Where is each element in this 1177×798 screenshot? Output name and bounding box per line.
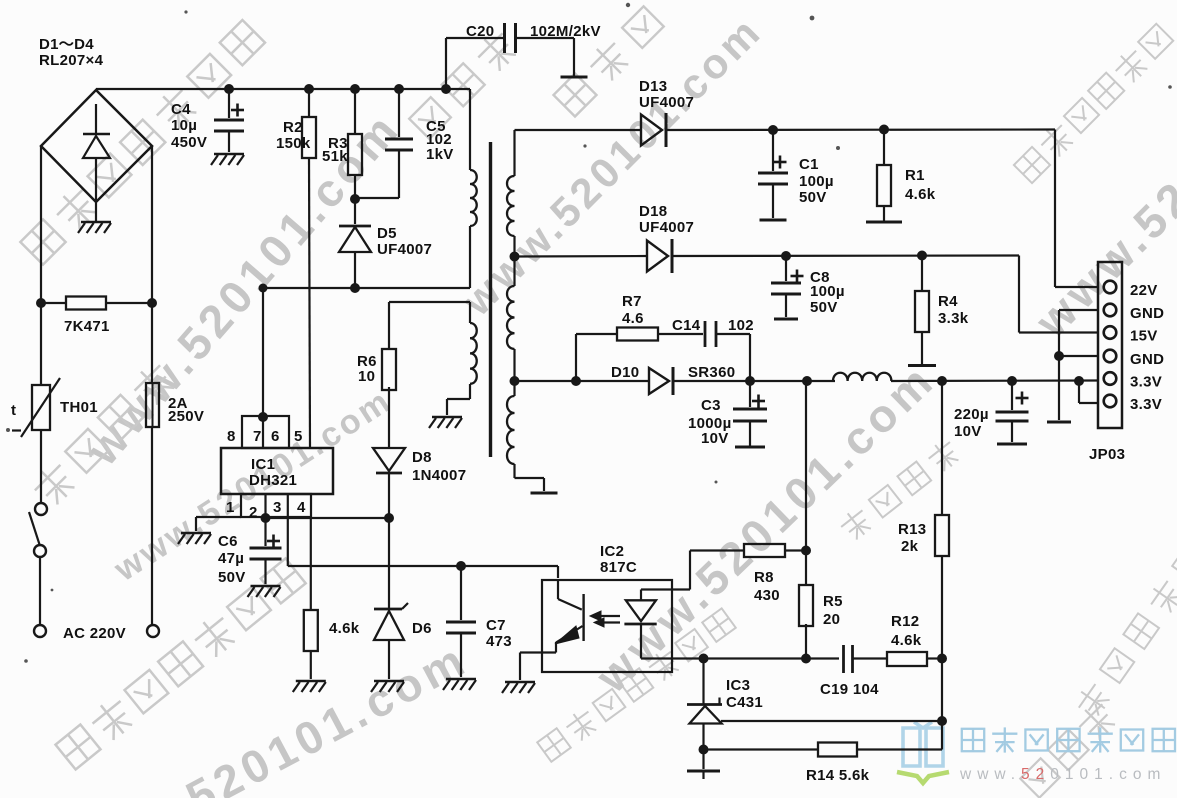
svg-text:D1～D4: D1～D4 [39, 36, 94, 53]
svg-text:3: 3 [273, 499, 282, 516]
svg-text:AC 220V: AC 220V [63, 625, 126, 642]
svg-text:100µ: 100µ [810, 283, 845, 300]
svg-text:IC2: IC2 [600, 543, 624, 560]
svg-text:R7: R7 [622, 293, 642, 310]
svg-text:50V: 50V [218, 569, 246, 586]
svg-text:R2: R2 [283, 119, 303, 136]
svg-text:10V: 10V [701, 430, 729, 447]
svg-text:4: 4 [297, 499, 306, 516]
svg-text:RL207×4: RL207×4 [39, 52, 104, 69]
svg-text:10V: 10V [954, 423, 982, 440]
svg-text:www.520101.com: www.520101.com [54, 632, 476, 798]
svg-text:UF4007: UF4007 [377, 241, 432, 258]
svg-text:D5: D5 [377, 225, 397, 242]
svg-text:R4: R4 [938, 293, 958, 310]
svg-text:102: 102 [728, 317, 754, 334]
svg-text:JP03: JP03 [1089, 446, 1125, 463]
svg-text:GND: GND [1130, 351, 1164, 368]
svg-text:D6: D6 [412, 620, 432, 637]
svg-text:20: 20 [823, 611, 840, 628]
svg-text:2: 2 [249, 504, 258, 521]
svg-text:D8: D8 [412, 449, 432, 466]
svg-text:8: 8 [227, 428, 236, 445]
svg-text:250V: 250V [168, 408, 204, 425]
svg-text:50V: 50V [799, 189, 827, 206]
svg-text:150k: 150k [276, 135, 311, 152]
svg-text:51k: 51k [322, 148, 348, 165]
svg-text:R5: R5 [823, 593, 843, 610]
svg-text:www.520101.com: www.520101.com [959, 766, 1166, 783]
svg-text:R8: R8 [754, 569, 774, 586]
svg-text:4.6k: 4.6k [905, 186, 936, 203]
svg-text:4.6k: 4.6k [891, 632, 922, 649]
svg-text:3.3k: 3.3k [938, 310, 969, 327]
svg-text:D10: D10 [611, 364, 639, 381]
svg-text:GND: GND [1130, 305, 1164, 322]
svg-text:450V: 450V [171, 134, 207, 151]
svg-text:100µ: 100µ [799, 173, 834, 190]
svg-text:D18: D18 [639, 203, 667, 220]
svg-text:C3: C3 [701, 397, 721, 414]
svg-text:7K471: 7K471 [64, 318, 110, 335]
svg-text:C431: C431 [726, 694, 763, 711]
svg-text:4.6k: 4.6k [329, 620, 360, 637]
svg-text:R1: R1 [905, 167, 925, 184]
svg-text:47µ: 47µ [218, 550, 244, 567]
svg-text:220µ: 220µ [954, 406, 989, 423]
svg-text:R13: R13 [898, 521, 926, 538]
svg-text:1: 1 [226, 499, 235, 516]
svg-text:TH01: TH01 [60, 399, 98, 416]
svg-text:UF4007: UF4007 [639, 219, 694, 236]
svg-text:430: 430 [754, 587, 780, 604]
svg-text:22V: 22V [1130, 282, 1158, 299]
svg-text:1N4007: 1N4007 [412, 467, 466, 484]
svg-text:t: t [11, 402, 16, 419]
svg-text:15V: 15V [1130, 328, 1158, 345]
svg-text:IC1: IC1 [251, 456, 275, 473]
svg-text:6: 6 [271, 428, 280, 445]
svg-text:3.3V: 3.3V [1130, 396, 1162, 413]
svg-text:D13: D13 [639, 78, 667, 95]
svg-text:C1: C1 [799, 156, 819, 173]
svg-text:2k: 2k [901, 538, 919, 555]
svg-text:C20: C20 [466, 23, 494, 40]
svg-text:102M/2kV: 102M/2kV [530, 23, 601, 40]
svg-text:C4: C4 [171, 101, 191, 118]
svg-text:R12: R12 [891, 613, 919, 630]
svg-text:www.520101.com: www.520101.com [585, 353, 945, 703]
svg-text:4.6: 4.6 [622, 310, 644, 327]
svg-text:50V: 50V [810, 299, 838, 316]
svg-text:R14 5.6k: R14 5.6k [806, 767, 870, 784]
svg-text:DH321: DH321 [249, 472, 297, 489]
svg-text:SR360: SR360 [688, 364, 735, 381]
svg-text:817C: 817C [600, 559, 637, 576]
svg-text:C14: C14 [672, 317, 701, 334]
svg-text:IC3: IC3 [726, 677, 750, 694]
svg-text:C7: C7 [486, 617, 506, 634]
svg-text:3.3V: 3.3V [1130, 374, 1162, 391]
svg-text:UF4007: UF4007 [639, 94, 694, 111]
svg-text:C6: C6 [218, 533, 238, 550]
svg-text:5: 5 [294, 428, 303, 445]
svg-text:C19 104: C19 104 [820, 681, 879, 698]
svg-text:1kV: 1kV [426, 146, 454, 163]
svg-text:10: 10 [358, 368, 375, 385]
svg-text:7: 7 [253, 428, 262, 445]
svg-text:10µ: 10µ [171, 117, 197, 134]
svg-text:473: 473 [486, 633, 512, 650]
